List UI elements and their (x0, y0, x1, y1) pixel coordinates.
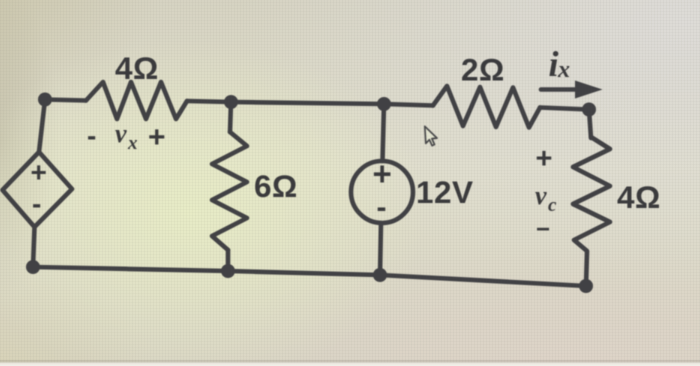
svg-text:-: - (32, 188, 41, 219)
svg-text:-: - (377, 191, 387, 224)
svg-text:2Ω: 2Ω (461, 52, 505, 88)
svg-text:-: - (87, 120, 96, 151)
wire R2 to node D (540, 108, 589, 110)
svg-text:i: i (549, 44, 559, 84)
svg-text:v: v (115, 119, 127, 148)
svg-text:x: x (127, 133, 138, 154)
svg-text:+: + (373, 155, 392, 192)
node D junction dot (582, 103, 596, 117)
svg-text:+: + (536, 143, 553, 175)
node A top-left junction dot (38, 93, 52, 107)
bottom-right junction dot (579, 279, 593, 293)
wire node C down to source V1 (383, 104, 385, 161)
wire node B down to R3 (230, 102, 231, 132)
wire R4 to bottom-right node (586, 252, 587, 286)
svg-text:+: + (31, 157, 47, 188)
wire node B to node C (231, 102, 384, 104)
wire bottom rail (33, 267, 586, 286)
current arrow ix shaft (541, 87, 580, 92)
svg-text:4Ω: 4Ω (617, 179, 661, 215)
wire V1 bottom to bottom node (380, 223, 381, 275)
wire R1 to node B (187, 101, 231, 102)
bottom junction dot under R3 (221, 264, 235, 278)
bottom-left junction dot (26, 260, 40, 274)
wire left branch: node A down to dependent source top (39, 100, 45, 153)
svg-text:−: − (536, 216, 550, 243)
svg-text:6Ω: 6Ω (254, 168, 298, 204)
node B junction dot (224, 95, 238, 109)
svg-text:v: v (535, 181, 547, 210)
svg-text:+: + (148, 121, 166, 154)
dependent source U1 diamond (3, 152, 73, 227)
wire node D down to R4 (589, 110, 591, 139)
node C junction dot (377, 97, 391, 111)
wire dependent source bottom to bottom-left node (33, 227, 35, 267)
current arrow ix head (575, 81, 603, 99)
svg-text:c: c (548, 195, 557, 216)
wire R3 to bottom node (226, 250, 231, 271)
svg-text:12V: 12V (416, 174, 474, 210)
resistor R2 2ohm horizontal zigzag (433, 86, 540, 128)
wire top-left node to R1 (45, 100, 86, 101)
resistor R1 4ohm horizontal zigzag (86, 82, 187, 119)
bottom junction dot under V1 (373, 268, 387, 282)
mouse cursor (425, 126, 437, 145)
wire node C to R2 (384, 104, 433, 106)
voltage source V1 12V circle (351, 161, 413, 223)
resistor R3 6ohm vertical zigzag (212, 132, 247, 250)
resistor R4 4ohm vertical zigzag (573, 137, 610, 251)
svg-text:x: x (557, 57, 570, 83)
svg-text:4Ω: 4Ω (115, 50, 159, 86)
